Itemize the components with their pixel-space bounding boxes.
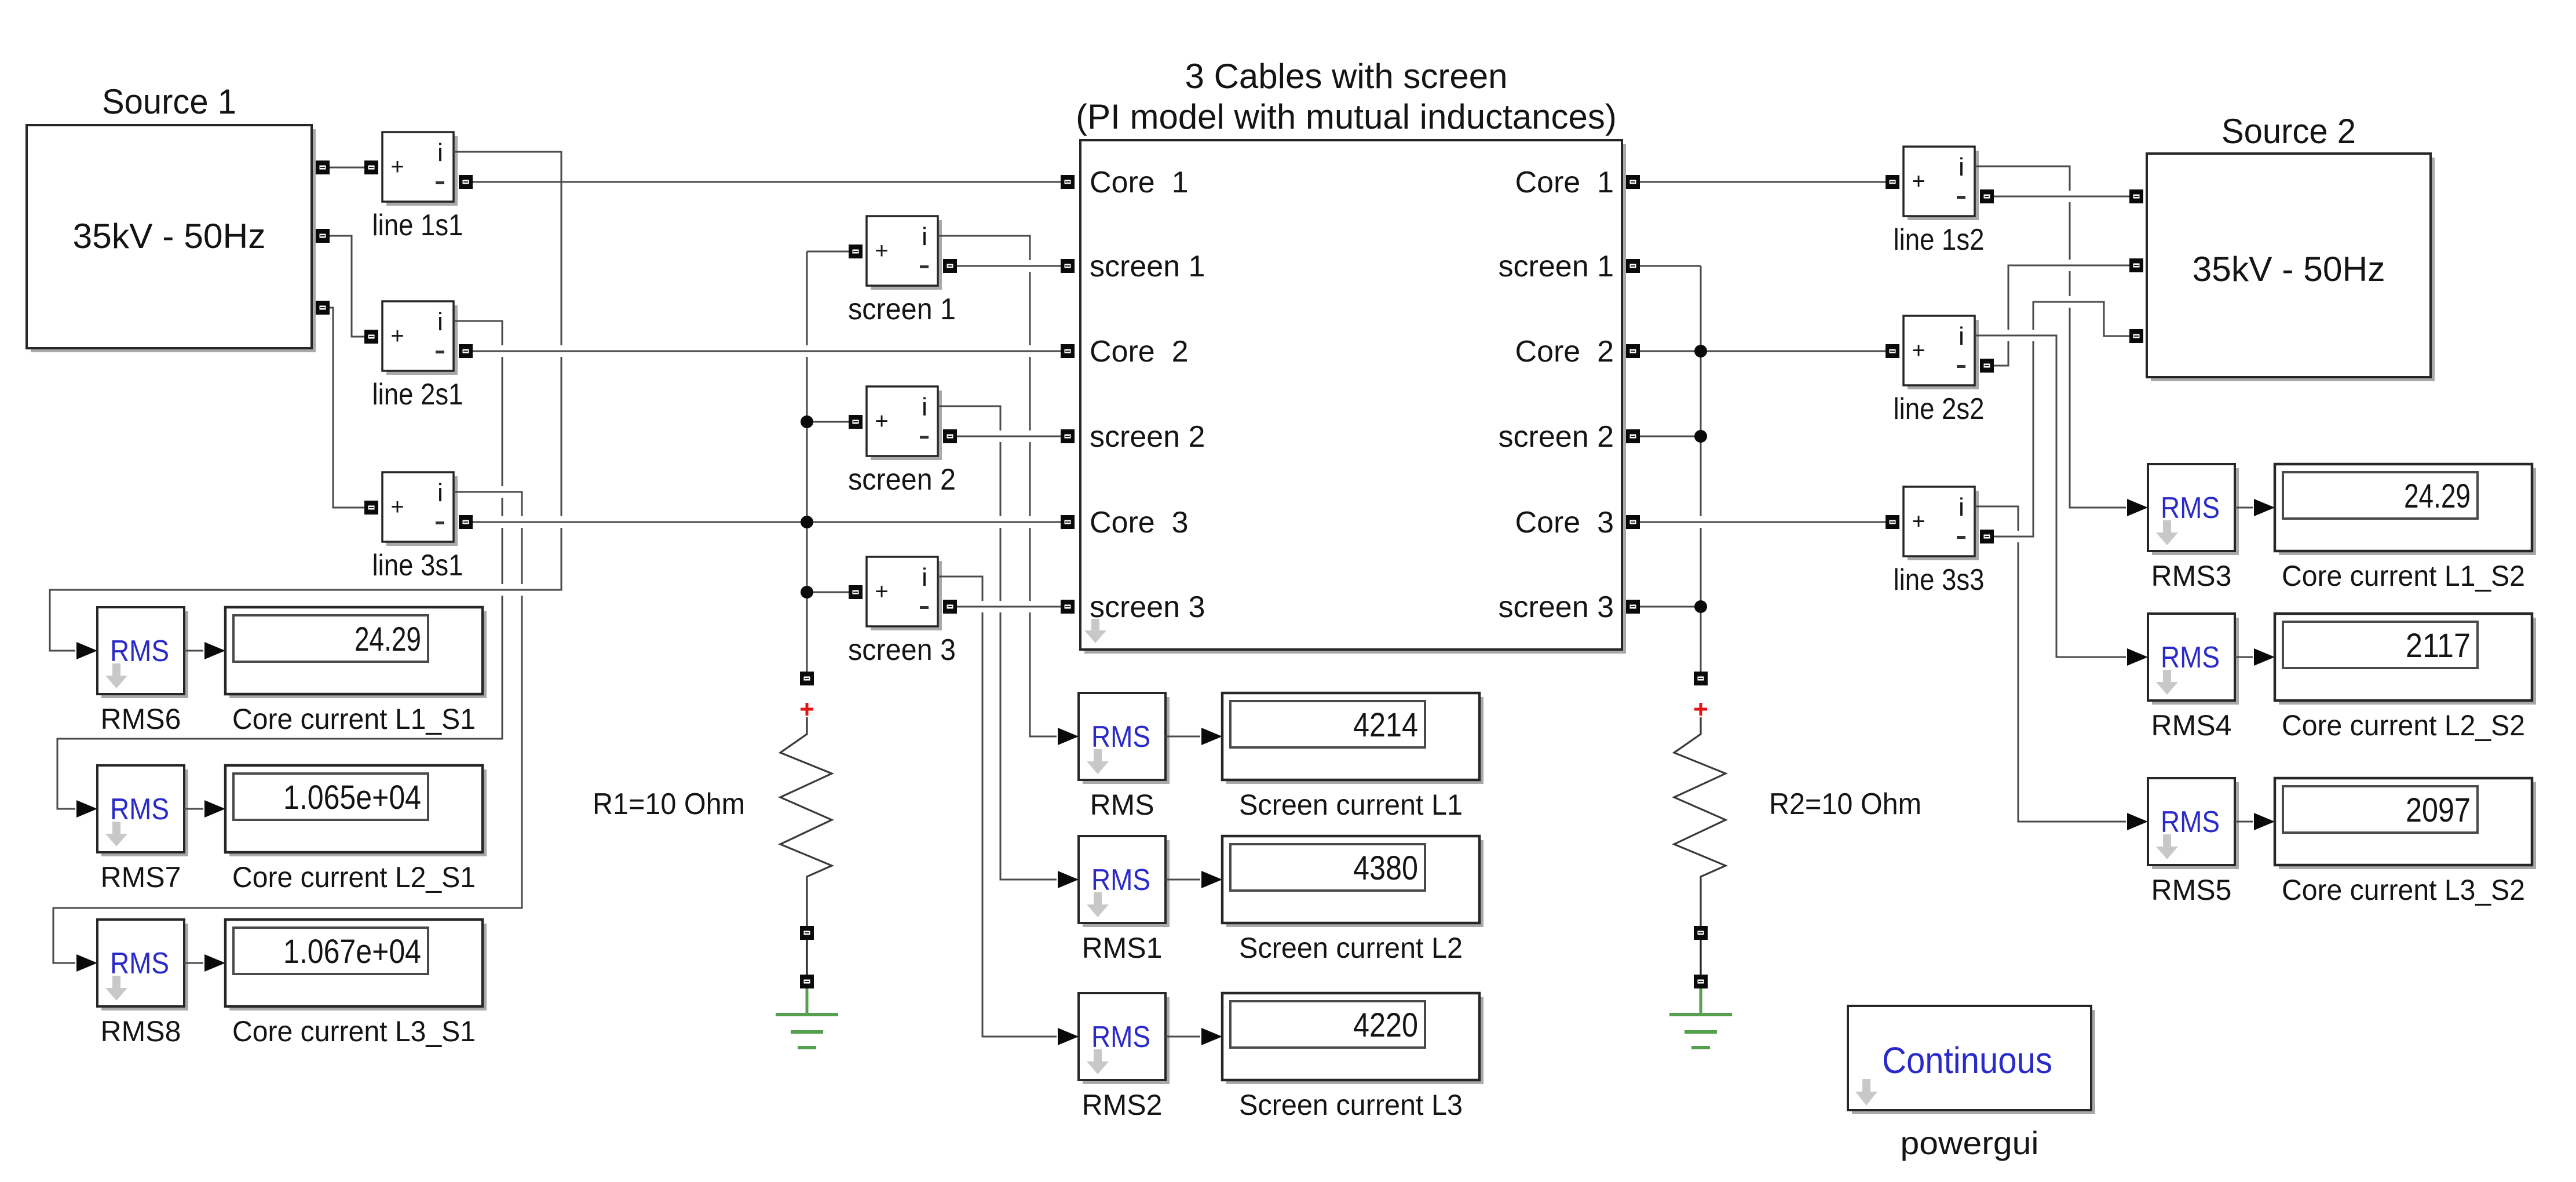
cable block right pin label screen 2 (1499, 420, 1614, 454)
arrow into RMS4 (2127, 648, 2148, 666)
svg-text:RMS: RMS (2161, 805, 2220, 839)
line 1s2 - output port (1980, 189, 1994, 203)
cable block right port s3 (1626, 600, 1640, 614)
svg-text:Core 1: Core 1 (1515, 166, 1614, 199)
wire screen 2 - to cable screen 2 left (957, 436, 1061, 437)
arrow into display Core current L3_S2 (2254, 813, 2275, 830)
wire RMS8 to display (184, 962, 203, 964)
cable block left port c1 (1061, 175, 1075, 189)
svg-text:+: + (1912, 338, 1925, 363)
resistor R2 bottom port (1694, 926, 1708, 940)
label line 1s1 (372, 209, 463, 242)
value 2117 in Core current L2_S2 (2406, 627, 2471, 665)
svg-text:Screen current L2: Screen current L2 (1239, 932, 1463, 964)
label line 3s3 (1894, 563, 1985, 597)
label RMS8 (101, 1015, 181, 1048)
wire resistor bottom port to ground port (1700, 940, 1701, 975)
svg-text:2097: 2097 (2406, 791, 2471, 829)
wire RMS1 to display (1165, 879, 1200, 881)
powergui block (Continuous) (1848, 1006, 2095, 1114)
svg-text:+: + (1912, 169, 1925, 194)
wire net Core3 right: cable Core 3 to line 3s3 + (1640, 521, 1886, 523)
value 1.065e+04 in Core current L2_S1 (283, 779, 421, 816)
Source 1 port 2 (316, 229, 330, 243)
cable block left port c2 (1061, 344, 1075, 358)
svg-text:screen 3: screen 3 (1090, 590, 1205, 624)
display block Core current L1_S1 (225, 607, 487, 698)
svg-text:screen 2: screen 2 (848, 463, 956, 497)
value 24.29 in Core current L1_S2 (2404, 477, 2471, 515)
svg-text:i: i (922, 222, 927, 251)
arrow into display Screen current L1 (1201, 728, 1222, 745)
cable block right pin label screen 1 (1499, 250, 1614, 283)
wire net Core1 left: line 1s1 - to cable Core 1 (473, 181, 1061, 183)
svg-text:2117: 2117 (2406, 627, 2471, 665)
svg-text:+: + (390, 494, 404, 520)
label Core current L3_S2 (2282, 874, 2525, 906)
svg-text:(PI model with mutual inductan: (PI model with mutual inductances) (1076, 97, 1617, 136)
line 2s1 - output port (459, 344, 473, 358)
cable block right port s1 (1626, 259, 1640, 273)
value 4380 in Screen current L2 (1353, 849, 1418, 887)
svg-text:24.29: 24.29 (2404, 477, 2471, 515)
wire screen 2 i to RMS1 (938, 406, 1057, 880)
svg-text:RMS: RMS (2161, 641, 2220, 674)
arrow into RMS6 (76, 642, 97, 659)
line 1s1 + input port (364, 160, 378, 174)
svg-text:4214: 4214 (1353, 706, 1418, 744)
ground symbol (776, 988, 838, 1048)
wire net Core2 right: cable Core 2 to line 2s2 + (1640, 351, 1886, 352)
value 4214 in Screen current L1 (1353, 706, 1418, 744)
svg-text:Core current L2_S2: Core current L2_S2 (2282, 709, 2525, 742)
display block Core current L1_S2 (2275, 464, 2536, 555)
current measurement block screen 3 (867, 557, 942, 630)
wire screen 3 - to cable screen 3 left (957, 606, 1061, 608)
svg-text:1.067e+04: 1.067e+04 (283, 933, 421, 971)
wire RMS7 to display (184, 808, 203, 810)
label RMS6 (101, 703, 181, 735)
svg-text:RMS5: RMS5 (2151, 874, 2232, 906)
svg-text:RMS7: RMS7 (101, 861, 181, 893)
polarity + marker of R1 (801, 703, 813, 716)
svg-text:Core 2: Core 2 (1090, 335, 1189, 369)
svg-text:screen 1: screen 1 (848, 293, 956, 326)
cable block right port c3 (1626, 515, 1640, 529)
arrow into display Core current L1_S1 (204, 642, 225, 659)
label line 1s2 (1894, 223, 1985, 257)
wire RMS2 to display (1165, 1036, 1200, 1038)
current measurement block line 2s2 (1903, 316, 1979, 389)
display block Core current L3_S1 (225, 920, 487, 1010)
svg-text:RMS: RMS (110, 634, 169, 668)
RMS block RMS3 (2148, 464, 2239, 555)
svg-text:Core current L2_S1: Core current L2_S1 (232, 861, 476, 893)
screen 2 + input port (849, 415, 863, 429)
wire net Core3 left: line 3s1 - to cable Core 3 (473, 521, 1061, 523)
cable block left pin label Core 2 (1090, 335, 1189, 369)
line 3s1 - output port (459, 515, 473, 529)
svg-text:Continuous: Continuous (1882, 1039, 2052, 1081)
value 4220 in Screen current L3 (1353, 1006, 1418, 1044)
label Screen current L1 (1239, 789, 1463, 821)
label Source 2 (2221, 112, 2356, 151)
line 3s3 + input port (1886, 515, 1899, 529)
svg-text:Core current L3_S2: Core current L3_S2 (2282, 874, 2525, 906)
svg-text:screen 1: screen 1 (1499, 250, 1614, 283)
svg-text:24.29: 24.29 (355, 621, 421, 658)
svg-text:i: i (1959, 153, 1964, 181)
svg-text:RMS: RMS (1090, 789, 1154, 821)
line 3s1 + input port (364, 501, 378, 515)
label Screen current L2 (1239, 932, 1463, 964)
svg-text:+: + (1912, 509, 1925, 534)
screen 3 - output port (943, 600, 957, 614)
label RMS5 (2151, 874, 2232, 906)
cable block right pin label Core 1 (1515, 166, 1614, 199)
cable block right port c2 (1626, 344, 1640, 358)
label Core current L2_S2 (2282, 709, 2525, 742)
wire cable screen 3 right to bus (1640, 606, 1701, 608)
svg-text:Core current L1_S2: Core current L1_S2 (2282, 560, 2525, 592)
current measurement block line 1s2 (1903, 147, 1979, 220)
display block Screen current L1 (1222, 693, 1484, 784)
wire bus to screen 1 + (807, 251, 849, 253)
svg-text:line 1s1: line 1s1 (372, 209, 463, 242)
voltage source block Source 2, 35kV - 50Hz three-phase source (2147, 154, 2435, 381)
svg-text:Core current L1_S1: Core current L1_S1 (232, 703, 476, 735)
svg-text:RMS4: RMS4 (2151, 709, 2232, 742)
value 24.29 in Core current L1_S1 (355, 621, 421, 658)
arrow into display Screen current L3 (1201, 1028, 1222, 1045)
value label R1=10 Ohm (593, 787, 745, 821)
wire line 2s2 - to Source2 port2 (1994, 265, 2129, 366)
resistor R1 bottom port (800, 926, 814, 940)
label RMS4 (2151, 709, 2232, 742)
svg-text:RMS: RMS (1091, 1020, 1150, 1054)
line 3s3 - output port (1980, 530, 1994, 543)
wire RMS6 to display (184, 650, 203, 652)
svg-text:35kV - 50Hz: 35kV - 50Hz (2193, 250, 2385, 289)
wire line 3s3 i to RMS5 (1975, 506, 2126, 822)
Source 2 port 1 (2129, 189, 2143, 203)
wire bus to screen 2 + (807, 421, 849, 423)
cable block left port s1 (1061, 259, 1075, 273)
current measurement block line 2s1 (382, 301, 458, 375)
svg-text:3 Cables with screen: 3 Cables with screen (1185, 57, 1508, 96)
svg-text:i: i (437, 479, 443, 507)
svg-text:screen 3: screen 3 (848, 633, 956, 667)
cable block right pin label Core 2 (1515, 335, 1614, 369)
arrow into RMS1 (1058, 871, 1079, 888)
junction right bus / screen3 (1694, 600, 1707, 613)
svg-text:+: + (390, 154, 404, 180)
RMS block RMS6 (97, 607, 188, 698)
svg-text:Core 3: Core 3 (1090, 506, 1189, 539)
display block Core current L2_S2 (2275, 614, 2536, 705)
svg-text:Core current L3_S1: Core current L3_S1 (232, 1015, 476, 1048)
polarity + marker of R2 (1694, 703, 1707, 716)
svg-text:line 2s1: line 2s1 (372, 378, 463, 411)
label screen 2 (848, 463, 956, 497)
svg-text:i: i (437, 308, 443, 336)
wire screen 3 i to RMS2 (938, 577, 1057, 1037)
label RMS2 (1082, 1089, 1163, 1121)
svg-text:Source 1: Source 1 (102, 82, 236, 121)
cable block left pin label screen 1 (1090, 250, 1205, 283)
arrow into RMS7 (76, 800, 97, 818)
label line 3s1 (372, 549, 463, 582)
RMS block RMS (1079, 693, 1170, 784)
wire left screen bus R1 net (806, 251, 808, 672)
svg-text:line 3s3: line 3s3 (1894, 563, 1985, 597)
display block Screen current L2 (1222, 836, 1484, 927)
arrow into RMS2 (1058, 1028, 1079, 1045)
label RMS3 (2151, 560, 2232, 592)
arrow into RMS8 (76, 954, 97, 972)
Source 2 port 2 (2129, 258, 2143, 272)
resistor R1 zigzag element (780, 717, 832, 926)
wire bus to screen 3 + (807, 592, 849, 593)
ground symbol (1669, 988, 1732, 1048)
svg-text:i: i (1959, 493, 1964, 521)
svg-text:+: + (390, 323, 404, 349)
arrow into display Core current L2_S1 (204, 800, 225, 818)
svg-text:Screen current L3: Screen current L3 (1239, 1089, 1463, 1121)
wire right screen bus R2 net (1700, 266, 1702, 672)
svg-text:1.065e+04: 1.065e+04 (283, 779, 421, 816)
arrow into display Core current L2_S2 (2254, 648, 2275, 666)
svg-text:screen 1: screen 1 (1090, 250, 1205, 283)
wire crossover gaps (494, 191, 2078, 827)
svg-text:i: i (922, 563, 927, 592)
label Core current L1_S1 (232, 703, 476, 735)
cable block left port s2 (1061, 429, 1075, 443)
wire Source1 port3 to line 3s1 + (330, 308, 364, 508)
svg-text:Core 2: Core 2 (1515, 335, 1614, 369)
wire line 2s2 i to RMS4 (1975, 335, 2126, 657)
svg-text:RMS8: RMS8 (101, 1015, 181, 1048)
wire RMS3 to display (2235, 507, 2253, 509)
screen 2 - output port (943, 429, 957, 443)
cable block gray drop arrow (1084, 619, 1106, 643)
svg-text:RMS1: RMS1 (1082, 932, 1163, 964)
line 1s2 + input port (1886, 175, 1899, 189)
current measurement block line 1s1 (382, 132, 458, 206)
wire net Core2 left: line 2s1 - to cable Core 2 (473, 351, 1061, 352)
junction left bus / Core3 net (801, 516, 813, 528)
current measurement block line 3s1 (382, 472, 458, 546)
cable block left pin label screen 3 (1090, 590, 1205, 624)
label RMS1 (1082, 932, 1163, 964)
svg-text:Core 1: Core 1 (1090, 166, 1189, 199)
junction right bus / screen2 (1694, 430, 1707, 443)
junction left bus / screen3 + (801, 586, 813, 599)
current measurement block screen 1 (867, 216, 942, 290)
RMS block RMS2 (1079, 993, 1170, 1084)
svg-text:screen 2: screen 2 (1499, 420, 1614, 454)
arrow into display Core current L3_S1 (204, 954, 225, 972)
svg-text:RMS2: RMS2 (1082, 1089, 1163, 1121)
label RMS7 (101, 861, 181, 893)
arrow into RMS3 (2127, 499, 2148, 516)
label Core current L3_S1 (232, 1015, 476, 1048)
title annotation 3 Cables with screen (1185, 57, 1508, 96)
svg-text:+: + (875, 238, 888, 264)
resistor R2 zigzag element (1674, 717, 1726, 926)
label powergui (1901, 1125, 2039, 1161)
display block Core current L3_S2 (2275, 778, 2536, 869)
label screen 1 (848, 293, 956, 326)
svg-text:Screen current L1: Screen current L1 (1239, 789, 1463, 821)
RMS block RMS8 (97, 920, 188, 1010)
svg-text:RMS3: RMS3 (2151, 560, 2232, 592)
svg-text:RMS: RMS (2161, 491, 2220, 525)
arrow into RMS (1058, 728, 1079, 745)
svg-text:i: i (922, 393, 927, 421)
svg-text:4380: 4380 (1353, 849, 1418, 887)
svg-text:RMS: RMS (1091, 720, 1150, 754)
arrow into RMS5 (2127, 813, 2148, 830)
svg-text:RMS: RMS (110, 793, 169, 826)
svg-text:+: + (875, 408, 888, 434)
svg-text:RMS6: RMS6 (101, 703, 181, 735)
voltage source block Source 1, 35kV - 50Hz three-phase source (27, 125, 316, 352)
label line 2s1 (372, 378, 463, 411)
ground connection port (1694, 975, 1708, 988)
resistor R2 top port (1694, 672, 1708, 685)
svg-text:i: i (1959, 322, 1964, 351)
wire cable screen 1 right to bus (1640, 265, 1701, 267)
cable block right pin label Core 3 (1515, 506, 1614, 539)
wire Source1 port2 to line 2s1 + (330, 236, 364, 337)
svg-text:Core 3: Core 3 (1515, 506, 1614, 539)
current measurement block screen 2 (867, 386, 942, 460)
wire line 1s2 i to RMS3 (1975, 166, 2126, 508)
wire RMS5 to display (2235, 821, 2253, 823)
wire cable screen 2 right to bus (1640, 436, 1701, 437)
line 2s2 + input port (1886, 344, 1899, 358)
wire line 1s1 i to RMS6 (50, 152, 561, 651)
current measurement block line 3s3 (1903, 487, 1979, 560)
cable block left port s3 (1061, 600, 1075, 614)
display block Core current L2_S1 (225, 765, 487, 856)
label Core current L1_S2 (2282, 560, 2525, 592)
line 1s1 - output port (459, 175, 473, 189)
svg-text:line 3s1: line 3s1 (372, 549, 463, 582)
label Source 1 (102, 82, 236, 121)
value 2097 in Core current L3_S2 (2406, 791, 2471, 829)
cable block left port c3 (1061, 515, 1075, 529)
RMS block RMS4 (2148, 614, 2239, 705)
wire Source1 port1 to line 1s1 + (330, 167, 364, 169)
wire line 2s1 i to RMS7 (57, 321, 502, 809)
junction right bus / Core2 net (1694, 345, 1707, 357)
cable block right pin label screen 3 (1499, 590, 1614, 624)
svg-text:i: i (437, 138, 443, 167)
label Core current L2_S1 (232, 861, 476, 893)
svg-text:R2=10 Ohm: R2=10 Ohm (1769, 787, 1921, 821)
wire RMS4 to display (2235, 656, 2253, 658)
cable block left pin label Core 3 (1090, 506, 1189, 539)
value label R2=10 Ohm (1769, 787, 1921, 821)
cable subsystem block: 3 Cables with screen (PI model with mutual inductances) (1080, 140, 1626, 654)
wire line 3s3 - to Source2 port3 (1994, 302, 2129, 537)
svg-text:screen 3: screen 3 (1499, 590, 1614, 624)
Source 1 port 1 (316, 160, 330, 174)
title annotation (PI model with mutual inductances) (1076, 97, 1617, 136)
label Screen current L3 (1239, 1089, 1463, 1121)
cable block right port c1 (1626, 175, 1640, 189)
label line 2s2 (1894, 392, 1985, 426)
junction left bus / screen2 + (801, 415, 813, 428)
svg-text:line 1s2: line 1s2 (1894, 223, 1985, 257)
line 2s1 + input port (364, 330, 378, 344)
svg-text:R1=10 Ohm: R1=10 Ohm (593, 787, 745, 821)
Source 1 port 3 (316, 301, 330, 315)
RMS block RMS7 (97, 765, 188, 856)
screen 1 + input port (849, 245, 863, 258)
RMS block RMS1 (1079, 836, 1170, 927)
wire line 3s1 i to RMS8 (53, 492, 522, 963)
line 2s2 - output port (1980, 359, 1994, 373)
svg-text:line 2s2: line 2s2 (1894, 392, 1985, 426)
ground connection port (800, 975, 814, 988)
wire resistor bottom port to ground port (806, 940, 807, 975)
resistor R1 top port (800, 672, 814, 685)
svg-text:powergui: powergui (1901, 1125, 2039, 1161)
RMS block RMS5 (2148, 778, 2239, 869)
Source 2 port 3 (2129, 329, 2143, 343)
cable block left pin label screen 2 (1090, 420, 1205, 454)
cable block right port s2 (1626, 429, 1640, 443)
svg-text:RMS: RMS (110, 947, 169, 980)
arrow into display Core current L1_S2 (2254, 499, 2275, 516)
screen 1 - output port (943, 259, 957, 273)
wire screen 1 i to RMS (938, 236, 1057, 736)
svg-text:+: + (875, 579, 888, 604)
screen 3 + input port (849, 585, 863, 599)
wire RMS to display (1165, 736, 1200, 738)
svg-text:RMS: RMS (1091, 863, 1150, 897)
svg-text:screen 2: screen 2 (1090, 420, 1205, 454)
wire net Core1 right: cable Core 1 to line 1s2 + (1640, 181, 1886, 183)
wire line 1s2 - to Source2 port1 (1994, 196, 2129, 198)
label screen 3 (848, 633, 956, 667)
svg-text:Source 2: Source 2 (2221, 112, 2356, 151)
cable block left pin label Core 1 (1090, 166, 1189, 199)
wire screen 1 - to cable screen 1 left (957, 265, 1061, 267)
display block Screen current L3 (1222, 993, 1484, 1084)
value 1.067e+04 in Core current L3_S1 (283, 933, 421, 971)
label RMS (1090, 789, 1154, 821)
arrow into display Screen current L2 (1201, 871, 1222, 888)
svg-text:35kV - 50Hz: 35kV - 50Hz (73, 217, 266, 256)
svg-text:4220: 4220 (1353, 1006, 1418, 1044)
